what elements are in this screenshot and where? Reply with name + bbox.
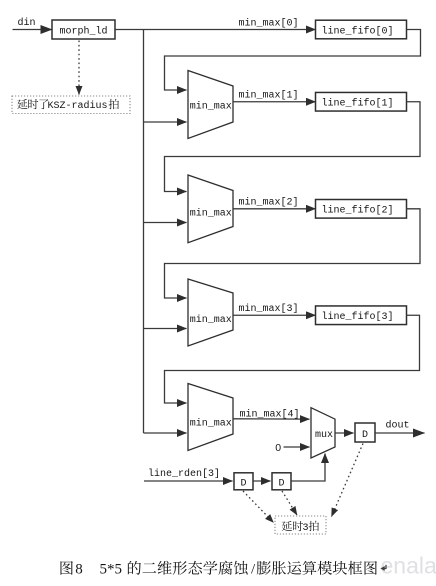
svg-text:min_max[2]: min_max[2] — [239, 197, 299, 209]
wire feedback loop 3 from line_fifo[2] — [165, 209, 421, 298]
svg-text:min_max[4]: min_max[4] — [240, 409, 300, 421]
svg-text:min_max[0]: min_max[0] — [239, 18, 299, 30]
svg-text:line_fifo[1]: line_fifo[1] — [322, 98, 394, 110]
line_fifo[1] block — [316, 92, 407, 111]
note text 延时了KSZ-radius拍 — [17, 99, 27, 109]
svg-text:din: din — [18, 17, 36, 29]
dashed note box 延时了KSZ-radius拍 — [12, 96, 130, 114]
line_fifo[2] block — [316, 200, 407, 219]
svg-text:mux: mux — [315, 430, 333, 441]
min_max comparator U4 trapezoid — [188, 279, 233, 346]
wire mux to D3 — [335, 432, 354, 434]
flip-flop D1 block — [234, 473, 253, 490]
flip-flop D3 block — [355, 423, 375, 442]
wire min_max[4] to mux — [233, 418, 310, 420]
wire feedback loop 1 from line_fifo[0] — [165, 30, 421, 91]
wire feedback loop 4 from line_fifo[3] — [165, 315, 420, 403]
wire bus branch to min_max 4 bottom input — [144, 432, 187, 434]
svg-text:line_fifo[0]: line_fifo[0] — [322, 25, 394, 37]
dashed note box 延时3拍 — [275, 516, 326, 534]
svg-text:enalan: enalan — [381, 553, 436, 579]
dotted delay arrow from morph_ld — [78, 41, 80, 95]
dotted arrow D3 to delay note — [332, 444, 364, 517]
svg-text:min_max: min_max — [190, 418, 232, 430]
line_fifo[0] block — [316, 20, 407, 39]
min_max comparator U5 trapezoid — [188, 384, 233, 451]
svg-text:KSZ-radius: KSZ-radius — [48, 100, 108, 112]
wire min_max[1] to line_fifo[1] — [233, 101, 316, 103]
svg-text:dout: dout — [386, 420, 410, 432]
wire bus branch to min_max 2 bottom input — [144, 222, 187, 224]
wire feedback loop 2 from line_fifo[1] — [165, 102, 421, 192]
min_max comparator U3 trapezoid — [188, 175, 233, 243]
dotted arrow D2 to delay note — [282, 491, 297, 515]
mux U6 trapezoid — [311, 408, 335, 458]
svg-text:8: 8 — [75, 562, 83, 578]
svg-text:/: / — [251, 562, 256, 578]
wire bus branch to min_max 1 bottom input — [144, 121, 187, 123]
wire 0 to mux — [284, 446, 310, 448]
wire din input arrow — [13, 29, 53, 31]
svg-text:min_max[1]: min_max[1] — [239, 90, 299, 102]
caption 图8 5*5 的二维形态学腐蚀/膨胀运算模块框图 — [60, 561, 72, 575]
wire bus branch to min_max 3 bottom input — [144, 328, 187, 330]
svg-text:D: D — [362, 430, 368, 441]
min_max comparator U2 trapezoid — [188, 71, 233, 139]
morph_ld U1 block — [52, 20, 115, 39]
svg-text:0: 0 — [275, 442, 281, 454]
svg-text:min_max: min_max — [190, 208, 232, 220]
caption pilcrow return mark — [383, 565, 386, 569]
svg-text:min_max: min_max — [190, 101, 232, 113]
wire dout output arrow — [375, 432, 425, 434]
svg-text:line_rden[3]: line_rden[3] — [148, 468, 220, 480]
line_fifo[3] block — [316, 306, 407, 325]
svg-text:morph_ld: morph_ld — [60, 26, 108, 38]
wire D1 to D2 — [253, 480, 271, 482]
wire morph_ld to line_fifo[0] — [115, 29, 316, 31]
svg-text:D: D — [279, 479, 285, 490]
svg-text:min_max: min_max — [190, 314, 232, 326]
svg-text:5*5: 5*5 — [100, 562, 123, 578]
note text 延时3拍 — [282, 521, 292, 531]
svg-text:3: 3 — [303, 523, 309, 534]
wire line_rden[3] to D1 — [144, 480, 233, 482]
wire min_max[3] to line_fifo[3] — [233, 314, 316, 316]
wire D2 to mux select — [291, 454, 325, 482]
wire main vertical bus from morph_ld output — [143, 30, 145, 434]
svg-text:line_fifo[3]: line_fifo[3] — [322, 311, 394, 323]
dotted arrow D1 to delay note — [243, 491, 274, 523]
svg-text:min_max[3]: min_max[3] — [239, 303, 299, 315]
flip-flop D2 block — [272, 473, 291, 490]
svg-text:line_fifo[2]: line_fifo[2] — [322, 205, 394, 217]
wire min_max[2] to line_fifo[2] — [233, 208, 316, 210]
svg-text:D: D — [241, 479, 247, 490]
